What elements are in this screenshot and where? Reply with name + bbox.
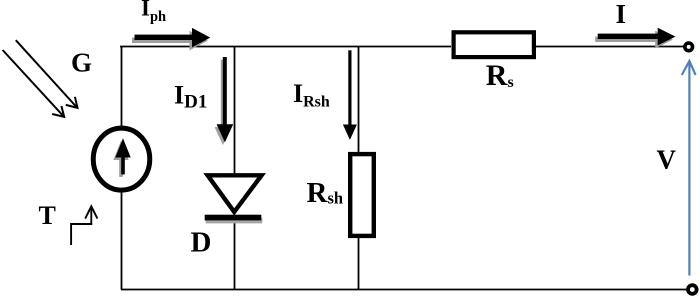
svg-text:T: T [39,201,56,230]
wire shunt branch lower [358,236,360,290]
arrow I shadow [595,31,673,49]
irradiance arrow ray 1 [16,40,78,108]
diode cathode bar shadow [206,218,263,224]
arrow ID1 [217,57,234,142]
arrow I [598,28,676,46]
current source I_ph [93,128,150,190]
wire top horizontal left segment [120,46,451,48]
svg-text:G: G [71,48,92,78]
diode cathode bar [205,215,262,221]
voltage arrow V [682,61,696,276]
temperature step arrow [71,206,97,245]
arrow Iph [135,28,211,48]
diode D [208,175,262,212]
wire left vertical lower [121,191,123,290]
svg-text:V: V [657,144,677,174]
current source arrow shadow [113,141,128,177]
terminal bottom [688,285,697,294]
svg-text:D: D [191,226,212,258]
terminal top [685,43,693,51]
wire diode branch upper [234,46,236,176]
resistor Rs [454,32,534,57]
wire bottom horizontal [121,289,686,291]
wire shunt branch upper [358,46,360,154]
wire top horizontal right segment [536,46,685,48]
wire left vertical upper [121,46,123,126]
resistor Rsh [350,154,374,236]
irradiance arrow ray 2 [3,50,65,117]
wire diode branch lower [234,221,236,290]
arrow ID1 shadow [215,60,232,145]
svg-text:I: I [616,0,627,29]
arrow Iph shadow [132,31,208,51]
arrow IRsh [343,50,357,140]
current source arrow [115,138,130,174]
